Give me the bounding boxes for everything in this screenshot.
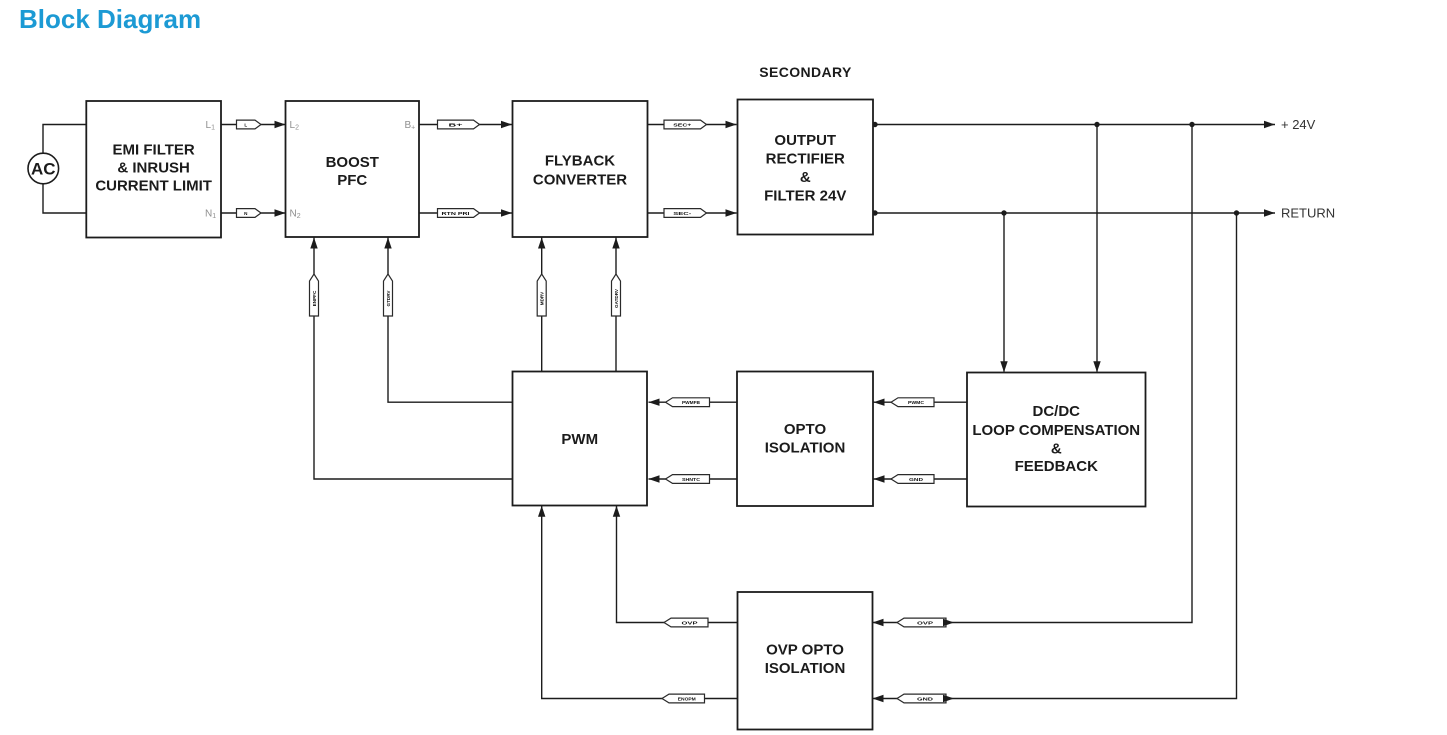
svg-text:GND: GND xyxy=(917,696,934,701)
wire RETURN to DC/DC sense xyxy=(1003,213,1005,372)
block OPTO ISOLATION xyxy=(737,372,873,507)
wire DC/DC to opto isolation feedback xyxy=(874,401,968,403)
svg-text:SEC+: SEC+ xyxy=(673,122,691,127)
svg-text:OVP: OVP xyxy=(682,620,698,625)
junction output rectifier +24V pin xyxy=(872,122,877,127)
wire PFC return to flyback xyxy=(419,212,512,214)
wire L1 to L2 xyxy=(221,124,286,126)
net flag GND secondary xyxy=(897,694,954,703)
arrow into opto isolation ground xyxy=(874,475,885,482)
block OUTPUT RECTIFIER & FILTER 24V xyxy=(738,100,874,235)
block FLYBACK CONVERTER xyxy=(513,101,648,237)
arrow into OVP opto from +24V xyxy=(873,619,884,626)
svg-text:&: & xyxy=(800,169,811,186)
arrow into L2 xyxy=(275,121,286,128)
svg-text:L: L xyxy=(244,122,247,127)
svg-text:ENPFC: ENPFC xyxy=(312,290,317,306)
svg-text:AC: AC xyxy=(31,160,56,179)
wire opto isolation to PWM feedback xyxy=(649,401,738,403)
arrow into PWM shutdown xyxy=(649,475,660,482)
wire PWM to flyback drive 1 xyxy=(541,238,543,372)
net flag B+ xyxy=(438,120,480,129)
svg-text:MDRV: MDRV xyxy=(540,291,545,305)
arrow into flyback drive 2 xyxy=(612,238,619,249)
wire N1 to N2 xyxy=(221,212,286,214)
block BOOST PFC xyxy=(286,101,420,237)
net flag MDRV vertical xyxy=(537,274,546,316)
svg-text:ISOLATION: ISOLATION xyxy=(765,439,846,456)
arrow RETURN xyxy=(1264,209,1275,216)
arrow into PWM bottom 1 xyxy=(538,506,545,517)
arrow into DC/DC right sense xyxy=(1093,361,1100,372)
svg-text:ISOLATION: ISOLATION xyxy=(765,660,846,677)
svg-text:FEEDBACK: FEEDBACK xyxy=(1015,458,1099,475)
net flag RTN PRI xyxy=(438,209,480,218)
wire PWM to boost PFC drive 2 xyxy=(388,238,513,403)
svg-text:GND: GND xyxy=(909,477,924,482)
svg-text:PFC: PFC xyxy=(337,172,367,189)
arrow into output rectifier SEC+ xyxy=(726,121,737,128)
net flag SHNTC xyxy=(666,475,710,484)
arrow into flyback B+ xyxy=(501,121,512,128)
AC source xyxy=(28,153,59,184)
wire RETURN down to OVP opto ground xyxy=(873,213,1237,699)
svg-text:CURRENT LIMIT: CURRENT LIMIT xyxy=(95,178,212,195)
arrow into PWM feedback xyxy=(649,399,660,406)
arrow into OVP opto ground xyxy=(873,695,884,702)
svg-text:OUTPUT: OUTPUT xyxy=(774,132,836,149)
wire +24V bus xyxy=(873,124,1275,126)
arrow into flyback drive 1 xyxy=(538,238,545,249)
svg-text:PWMFB: PWMFB xyxy=(682,400,701,405)
net flag ENOPM xyxy=(662,694,705,703)
arrow into output rectifier SEC- xyxy=(726,209,737,216)
net flag GTDRV vertical xyxy=(384,274,393,316)
wire AC to EMI N1 xyxy=(43,184,86,213)
junction +24V at x1097 xyxy=(1094,122,1099,127)
arrow into PFC drive 1 xyxy=(310,238,317,249)
net flag PWMC xyxy=(891,398,934,407)
arrow into DC/DC left sense xyxy=(1000,361,1007,372)
wire OVP opto to PWM input 1 xyxy=(542,506,738,699)
block PWM xyxy=(513,372,648,506)
svg-text:SEC-: SEC- xyxy=(673,211,692,216)
wire PWM to flyback drive 2 xyxy=(615,238,617,372)
svg-text:RETURN: RETURN xyxy=(1281,206,1335,221)
wire PWM to boost PFC drive 1 xyxy=(314,238,513,480)
svg-text:RTN PRI: RTN PRI xyxy=(442,211,470,216)
junction +24V at x1192 xyxy=(1189,122,1194,127)
wire opto isolation to PWM shutdown xyxy=(649,478,738,480)
block OVP OPTO ISOLATION xyxy=(738,592,873,730)
svg-text:LOOP COMPENSATION: LOOP COMPENSATION xyxy=(972,422,1140,439)
net flag L xyxy=(237,120,262,129)
net flag GND primary xyxy=(891,475,934,484)
wire RETURN bus xyxy=(873,212,1275,214)
wire B+ to flyback xyxy=(419,124,512,126)
svg-text:SHNTC: SHNTC xyxy=(682,477,701,482)
junction RETURN at x1004 xyxy=(1001,210,1006,215)
svg-text:PWMC: PWMC xyxy=(908,400,925,405)
svg-text:B+: B+ xyxy=(449,122,464,127)
block EMI FILTER & INRUSH CURRENT LIMIT xyxy=(86,101,221,238)
svg-text:&: & xyxy=(1051,440,1062,457)
svg-text:GTDRV: GTDRV xyxy=(386,290,391,307)
svg-text:& INRUSH: & INRUSH xyxy=(117,160,190,177)
arrow into flyback return xyxy=(501,209,512,216)
svg-text:OPTO: OPTO xyxy=(784,421,827,438)
net flag N xyxy=(237,209,262,218)
arrow +24V xyxy=(1264,121,1275,128)
svg-text:ENOPM: ENOPM xyxy=(678,696,696,701)
wire DC/DC to opto isolation ground xyxy=(874,478,968,480)
junction output rectifier return pin xyxy=(872,210,877,215)
arrow into PWM bottom 2 xyxy=(613,506,620,517)
svg-text:DC/DC: DC/DC xyxy=(1033,403,1081,420)
svg-text:FLYBACK: FLYBACK xyxy=(545,152,615,169)
svg-text:FILTER 24V: FILTER 24V xyxy=(764,187,846,204)
wire AC to EMI L1 xyxy=(43,125,86,154)
wire +24V down to OVP opto input xyxy=(873,125,1192,623)
svg-text:BOOST: BOOST xyxy=(326,154,379,171)
net flag ENPFC vertical xyxy=(310,274,319,316)
net flag PWMFB xyxy=(666,398,710,407)
junction RETURN at x1236 xyxy=(1234,210,1239,215)
svg-text:OVP: OVP xyxy=(917,620,933,625)
svg-text:OVP OPTO: OVP OPTO xyxy=(766,641,844,658)
svg-text:SECONDARY: SECONDARY xyxy=(759,64,852,80)
svg-text:RECTIFIER: RECTIFIER xyxy=(766,150,845,167)
wire OVP opto to PWM input 2 xyxy=(617,506,738,623)
arrow into N2 xyxy=(275,209,286,216)
wire +24V to DC/DC sense xyxy=(1096,125,1098,372)
wire flyback to output rectifier SEC- xyxy=(648,212,737,214)
svg-text:Block Diagram: Block Diagram xyxy=(19,4,201,34)
net flag GATDRV vertical xyxy=(612,274,621,316)
svg-text:EMI FILTER: EMI FILTER xyxy=(113,142,195,159)
block DC/DC LOOP COMPENSATION & FEEDBACK xyxy=(967,373,1146,507)
net flag SEC+ xyxy=(664,120,707,129)
net flag SEC- xyxy=(664,209,707,218)
arrow into opto isolation feedback xyxy=(874,399,885,406)
net flag OVP sense xyxy=(897,618,954,627)
svg-text:PWM: PWM xyxy=(561,431,598,448)
net flag OVP to PWM xyxy=(664,618,708,627)
svg-text:+ 24V: + 24V xyxy=(1281,117,1316,132)
wire flyback to output rectifier SEC+ xyxy=(648,124,737,126)
svg-text:GATDRV: GATDRV xyxy=(614,288,619,308)
svg-text:CONVERTER: CONVERTER xyxy=(533,171,627,188)
arrow into PFC drive 2 xyxy=(384,238,391,249)
